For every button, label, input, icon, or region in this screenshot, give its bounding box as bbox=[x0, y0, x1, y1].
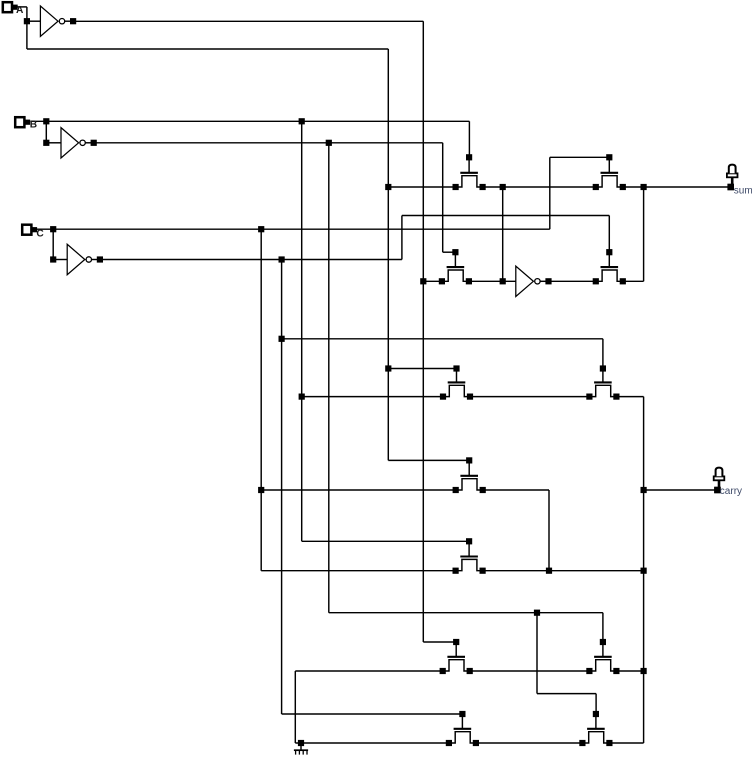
svg-text:sum: sum bbox=[734, 185, 752, 196]
svg-text:carry: carry bbox=[720, 486, 742, 497]
svg-text:A: A bbox=[16, 5, 24, 16]
svg-text:C: C bbox=[36, 229, 44, 240]
svg-text:B: B bbox=[30, 120, 37, 131]
